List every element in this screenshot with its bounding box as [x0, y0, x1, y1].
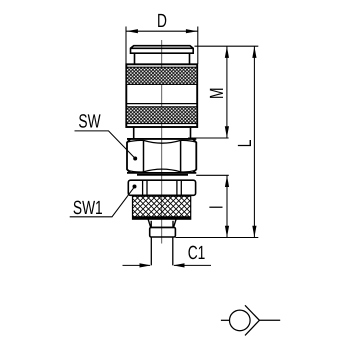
hex2 (SW1)	[128, 180, 195, 195]
dimension M	[226, 46, 228, 138]
mid line	[126, 103, 197, 105]
svg-text:C1: C1	[188, 243, 206, 264]
dimension I	[226, 175, 228, 237]
neck between body and hex1	[134, 127, 191, 139]
sleeve body	[126, 64, 197, 127]
svg-text:L: L	[235, 140, 256, 148]
cap (top button)	[131, 46, 194, 65]
svg-text:D: D	[157, 11, 167, 32]
svg-text:SW1: SW1	[73, 198, 103, 219]
hex1 (SW)	[127, 139, 196, 175]
dimension L	[253, 46, 255, 237]
svg-text:M: M	[207, 88, 228, 99]
collar	[150, 227, 176, 237]
dimension D	[126, 27, 198, 64]
knurl3 (bottom nut)	[133, 196, 191, 219]
taper neck below nut	[148, 219, 176, 227]
svg-text:SW: SW	[78, 112, 100, 133]
knurl band 2	[126, 107, 197, 124]
knurl band 1	[126, 67, 197, 84]
check valve symbol	[221, 305, 280, 335]
dimension C1	[123, 264, 212, 266]
tube	[151, 237, 173, 265]
svg-text:I: I	[207, 205, 228, 209]
centerline	[161, 40, 163, 244]
right extension lines	[175, 46, 258, 237]
